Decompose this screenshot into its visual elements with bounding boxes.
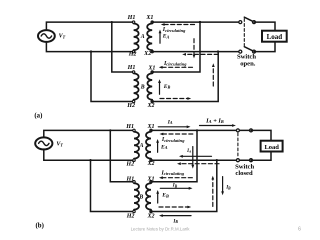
transformer B secondary winding (a) [147, 73, 152, 99]
wire branch to B H1 (b) [110, 130, 134, 181]
svg-text:EA: EA [160, 144, 168, 150]
switch contact top-right (b) [250, 129, 253, 132]
svg-text:H2: H2 [125, 161, 134, 167]
node junction X1 bus (b) [196, 129, 198, 131]
transformer B primary winding (b) [134, 183, 139, 209]
svg-text:B: B [138, 194, 143, 200]
transformer B primary winding (a) [134, 73, 139, 99]
terminal H1 of B (a) [132, 71, 134, 73]
terminal X1 of B (b) [150, 181, 152, 183]
arrow EB induced voltage (b) [156, 190, 159, 203]
svg-text:EA: EA [162, 34, 170, 40]
svg-text:Icirculating: Icirculating [163, 61, 187, 67]
switch contact bottom-right (b) [250, 159, 253, 162]
svg-text:H1: H1 [125, 124, 134, 130]
svg-text:open.: open. [240, 60, 256, 67]
svg-text:EB: EB [161, 193, 169, 199]
transformer A secondary winding (b) [146, 132, 151, 159]
wire source top (b) [44, 130, 134, 137]
terminal H2 of B (b) [133, 210, 135, 212]
arrow EA induced voltage (a) [159, 30, 162, 44]
terminal X1 of A (a) [151, 21, 153, 23]
node junction X2 bus (b) [216, 159, 218, 161]
dashed circulating arrow up right (b) [212, 179, 214, 207]
svg-text:(a): (a) [34, 113, 42, 120]
svg-text:(b): (b) [36, 222, 44, 229]
switch open top blade (a) [244, 17, 254, 22]
load resistor box (a) [262, 31, 287, 42]
dashed circulating arrow above B X2 (b) [159, 206, 188, 208]
terminal X1 of A (b) [150, 129, 152, 131]
load resistor box (b) [261, 141, 283, 152]
switch contact bottom-left (a) [239, 50, 242, 53]
switch contact top-left (a) [239, 21, 242, 24]
transformer A secondary winding (a) [147, 24, 152, 51]
wire switch to load top (b) [251, 130, 271, 140]
terminal H1 of B (b) [133, 181, 135, 183]
terminal H2 of A (b) [133, 159, 135, 161]
dashed circulating arrow above B X1 (b) [162, 177, 192, 179]
wire source bottom (a) [46, 42, 133, 52]
svg-text:X2: X2 [143, 51, 151, 57]
svg-text:Icirculating: Icirculating [161, 170, 185, 176]
arrow IA+IB to the right (b) [200, 124, 236, 127]
wire B X1 up to bus (a) [152, 22, 200, 72]
node junction X2 bus (a) [217, 50, 219, 52]
wire load bottom to switch (b) [251, 152, 271, 161]
terminal H2 of A (a) [132, 50, 134, 52]
svg-text:Icirculating: Icirculating [162, 27, 186, 33]
svg-text:IB: IB [172, 219, 178, 224]
dashed circulating arrow mid left (a) [185, 53, 218, 55]
switch contact top-left (b) [236, 129, 239, 132]
svg-text:H2: H2 [126, 103, 135, 109]
svg-text:IA: IA [186, 149, 192, 154]
dashed circulating arrow below A X2 (b) [180, 163, 219, 165]
svg-text:IB: IB [225, 186, 231, 191]
source VT (b) [35, 137, 52, 149]
terminal X2 of B (b) [150, 210, 152, 212]
svg-text:X1: X1 [146, 124, 154, 130]
arrow IB down right of bus (b) [221, 177, 224, 196]
wire A X2 to switch (b) [151, 159, 238, 161]
svg-text:Icirculating: Icirculating [161, 137, 185, 143]
transformer A primary winding (b) [134, 132, 139, 159]
wire A X1 to switch (a) [152, 21, 240, 23]
terminal X2 of A (b) [150, 159, 152, 161]
svg-text:X2: X2 [146, 103, 154, 109]
svg-text:IA: IA [167, 119, 173, 125]
source VT (a) [38, 30, 55, 42]
dashed circulating arrow down (a) [193, 39, 195, 56]
terminal X2 of A (a) [151, 50, 153, 52]
svg-text:A: A [140, 34, 145, 40]
switch open bottom blade (a) [244, 47, 254, 52]
svg-text:Load: Load [264, 144, 279, 151]
wire branch to B H1 (a) [112, 22, 134, 72]
wire branch to B H2 (b) [91, 160, 135, 211]
svg-text:IA + IB: IA + IB [205, 117, 224, 124]
svg-text:Load: Load [267, 33, 283, 41]
arrow IA to the right (b) [158, 125, 190, 128]
wire source top (a) [46, 22, 133, 30]
svg-text:X1: X1 [147, 65, 155, 71]
switch contact top-right (a) [253, 21, 256, 24]
node junction top branch (a) [111, 21, 113, 23]
terminal X2 of B (a) [151, 100, 153, 102]
node junction bottom branch (b) [89, 159, 91, 161]
terminal H2 of B (a) [132, 100, 134, 102]
wire B X2 up to bus (b) [151, 160, 217, 211]
arrow EB induced voltage (a) [158, 79, 161, 94]
wire B X1 up to bus (b) [151, 130, 197, 181]
transformer B secondary winding (b) [146, 183, 151, 209]
wire switch to load top (a) [254, 22, 275, 31]
wire load bottom to switch (a) [254, 42, 275, 52]
svg-text:VT: VT [56, 142, 63, 148]
arrow IA down (b) [191, 147, 194, 169]
switch closed blade bottom (b) [238, 159, 251, 161]
node junction bottom branch (a) [90, 50, 92, 52]
arrow IB to the right (b) [160, 187, 192, 190]
transformer A primary winding (a) [134, 24, 139, 51]
dashed circulating arrow above B X1 (a) [162, 66, 193, 68]
arrow IB to the left below X2 (b) [159, 214, 191, 217]
dashed circulating arrow top left (a) [164, 24, 195, 26]
terminal X1 of B (a) [151, 71, 153, 73]
wire B X2 up to bus (a) [152, 52, 218, 102]
svg-text:6: 6 [298, 227, 301, 233]
dashed circulating arrow below A X1 (b) [163, 133, 193, 135]
switch linkage dashed (b) [237, 133, 239, 158]
node junction X1 bus (a) [199, 21, 201, 23]
svg-text:X1: X1 [145, 15, 153, 21]
svg-text:A: A [139, 143, 144, 149]
svg-text:H1: H1 [127, 65, 136, 71]
svg-text:X2: X2 [146, 161, 154, 167]
svg-text:H2: H2 [128, 52, 137, 58]
svg-text:H1: H1 [126, 177, 135, 183]
svg-text:B: B [140, 85, 145, 91]
switch contact bottom-left (b) [236, 159, 239, 162]
node junction top branch (b) [109, 129, 111, 131]
switch contact bottom-right (a) [253, 50, 256, 53]
svg-text:Lecture Notes by Dr.R.M.Larik: Lecture Notes by Dr.R.M.Larik [131, 226, 191, 231]
svg-text:H1: H1 [127, 15, 136, 21]
wire A X1 to switch (b) [151, 129, 238, 131]
svg-text:EB: EB [163, 84, 171, 90]
svg-text:X2: X2 [146, 213, 154, 219]
wire A X2 to switch (a) [152, 51, 240, 53]
arrow IA to the left above X2 (b) [179, 155, 212, 158]
wire source bottom (b) [44, 149, 134, 160]
terminal H1 of A (a) [132, 21, 134, 23]
switch linkage dashed (a) [243, 19, 245, 46]
svg-text:closed: closed [235, 170, 253, 177]
wire branch to B H2 (a) [91, 52, 134, 102]
switch closed blade top (b) [238, 129, 251, 131]
svg-text:H2: H2 [126, 214, 135, 220]
svg-text:VT: VT [59, 34, 66, 40]
terminal H1 of A (b) [133, 129, 135, 131]
dashed circulating arrow up right (a) [212, 66, 214, 86]
dashed circulating arrow above B X2 (a) [160, 98, 188, 100]
arrow EA induced voltage (b) [156, 139, 159, 152]
